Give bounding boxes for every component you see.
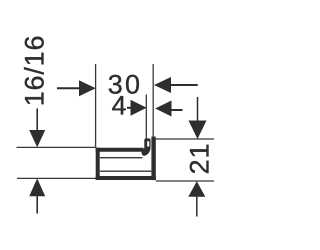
dim 16/16 stem <box>36 109 38 131</box>
extension line left (front face of hook) <box>95 64 97 148</box>
dim 4 left leader <box>127 107 131 109</box>
extension line for 4 dim <box>145 95 147 139</box>
bottom-left arrow up <box>29 178 45 196</box>
extension line right (wall plate face) <box>152 64 154 137</box>
wall plate <box>151 137 155 181</box>
dim 4 right arrow <box>155 101 171 117</box>
dim 4 left arrow <box>131 100 147 116</box>
hook body outline (thick) <box>96 148 156 180</box>
dim 30 right arrow <box>154 77 171 93</box>
dim 21 top arrow <box>189 121 207 140</box>
extension line top-left horizontal <box>17 146 96 148</box>
dim 30 right leader <box>171 84 198 86</box>
dim 30 left leader <box>57 87 80 89</box>
wall top line <box>156 138 214 140</box>
bottom-left arrow stem <box>36 196 38 214</box>
extension line bottom-left horizontal <box>17 177 96 179</box>
svg-text:4: 4 <box>111 91 126 121</box>
wall bottom line <box>156 180 214 182</box>
dim 21 bottom arrow <box>188 181 205 197</box>
dim 4 right leader <box>171 109 183 111</box>
hook inner bottom line <box>100 170 152 172</box>
dim 21 top stem <box>197 97 199 121</box>
dim 30 left arrow <box>79 80 96 96</box>
svg-text:16/16: 16/16 <box>20 35 50 107</box>
hook inner top line <box>100 157 143 159</box>
dim 16/16 arrow down <box>29 130 45 147</box>
svg-text:21: 21 <box>185 143 215 175</box>
hook rear curl <box>141 138 150 155</box>
dim 21 bottom stem <box>196 196 198 216</box>
